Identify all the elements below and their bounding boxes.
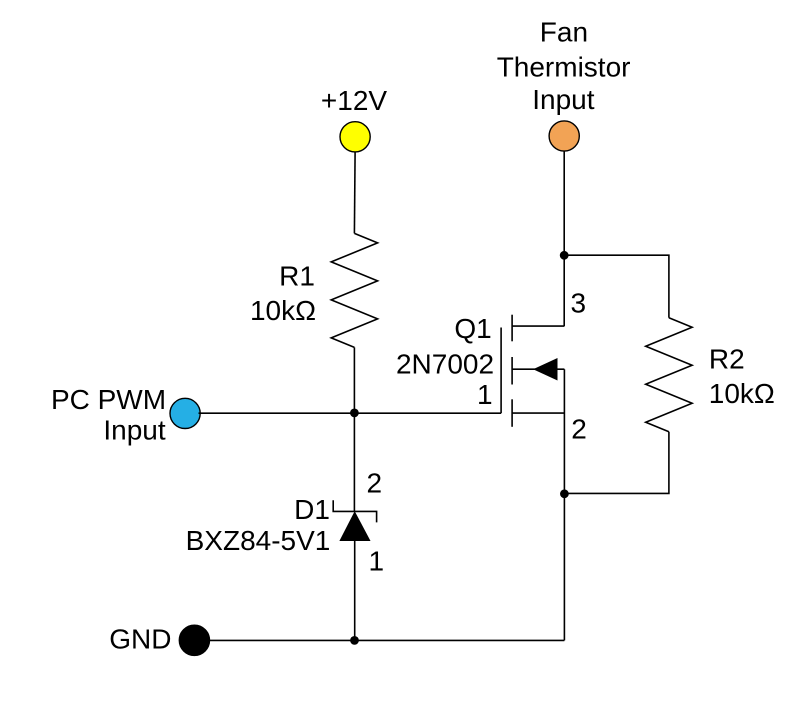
wire GND rail: [209, 639, 565, 641]
svg-text:2N7002: 2N7002: [396, 349, 494, 380]
node PC PWM Input label: [51, 384, 166, 446]
svg-text:Input: Input: [103, 415, 165, 446]
wire R2 bottom to source node: [564, 432, 669, 494]
svg-text:1: 1: [369, 546, 385, 577]
svg-text:3: 3: [571, 288, 587, 319]
diode D1: [333, 500, 376, 540]
svg-text:R1: R1: [279, 261, 315, 292]
ground terminal GND: [179, 625, 209, 655]
junction GND-D1 node: [350, 636, 359, 645]
svg-text:GND: GND: [109, 624, 171, 655]
svg-text:D1: D1: [294, 494, 330, 525]
svg-text:+12V: +12V: [321, 85, 387, 116]
svg-text:BXZ84-5V1: BXZ84-5V1: [186, 525, 331, 556]
transistor Q1: [501, 315, 564, 427]
svg-text:R2: R2: [709, 344, 745, 375]
junction PWM node: [350, 409, 359, 418]
wire +12V to R1: [353, 152, 356, 234]
power terminal +12V: [340, 122, 370, 152]
junction drain node: [560, 251, 569, 260]
svg-text:Fan: Fan: [540, 17, 588, 48]
wire PC PWM Input to Q1 gate: [199, 412, 502, 414]
wire Fan Thermistor Input to Q1 drain: [563, 151, 565, 326]
svg-text:2: 2: [367, 468, 383, 499]
terminal PC PWM Input: [170, 398, 200, 428]
terminal Fan Thermistor Input: [549, 121, 579, 151]
resistor R1: [331, 233, 377, 347]
svg-text:10kΩ: 10kΩ: [250, 295, 316, 326]
svg-text:10kΩ: 10kΩ: [709, 378, 775, 409]
wire Q1 source-body down to GND rail: [563, 369, 565, 640]
node Fan Thermistor Input label: [497, 17, 631, 116]
svg-text:Q1: Q1: [454, 313, 491, 344]
svg-text:Input: Input: [532, 84, 594, 115]
svg-text:Thermistor: Thermistor: [497, 52, 631, 83]
svg-text:PC PWM: PC PWM: [51, 384, 166, 415]
resistor R2: [646, 318, 692, 432]
junction source node: [560, 489, 569, 498]
wire drain node to R2 top: [564, 255, 669, 318]
svg-text:1: 1: [477, 379, 493, 410]
wire D1 anode to GND rail: [354, 541, 356, 641]
svg-text:2: 2: [571, 414, 587, 445]
wire R1 to D1: [353, 347, 355, 511]
